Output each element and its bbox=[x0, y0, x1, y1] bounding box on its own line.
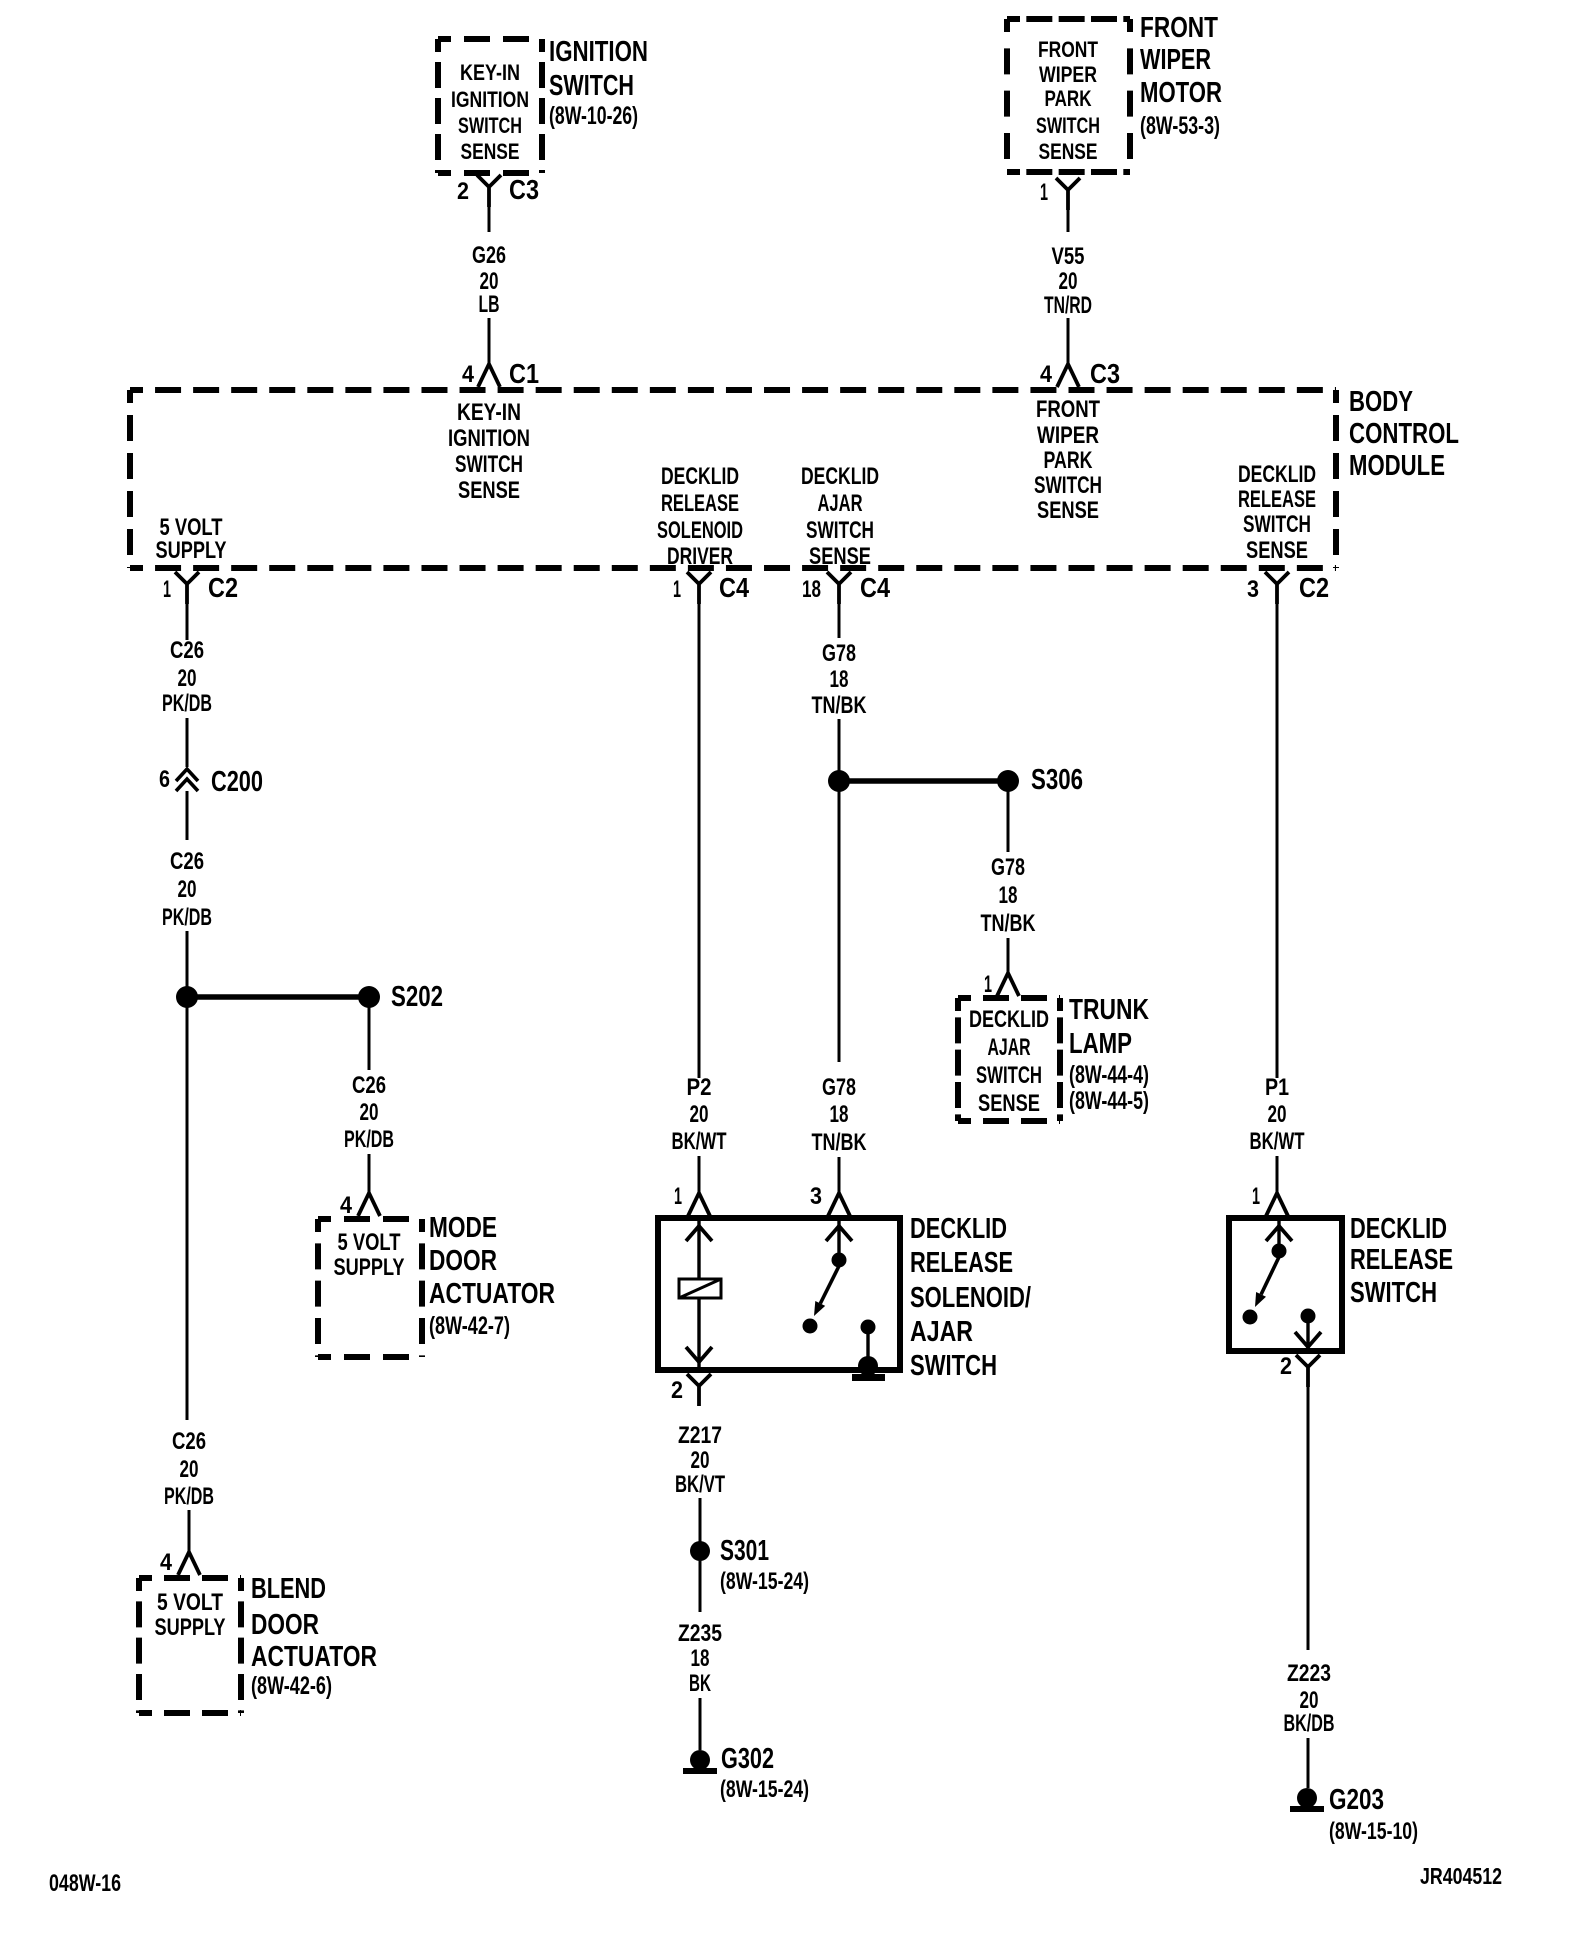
wire label C26 20 PK/DB (upper) bbox=[162, 637, 212, 717]
svg-text:RELEASE: RELEASE bbox=[1350, 1244, 1453, 1276]
svg-text:18: 18 bbox=[999, 882, 1018, 909]
svg-text:FRONT: FRONT bbox=[1036, 396, 1100, 423]
wire V55 20 TN/RD bbox=[1044, 243, 1092, 363]
svg-text:SUPPLY: SUPPLY bbox=[156, 537, 227, 564]
connector C2 pin 1 (BCM bottom left) bbox=[163, 572, 238, 604]
svg-text:FRONT: FRONT bbox=[1038, 37, 1098, 62]
svg-text:(8W-44-4): (8W-44-4) bbox=[1069, 1061, 1149, 1089]
svg-text:FRONT: FRONT bbox=[1140, 12, 1218, 44]
svg-text:1: 1 bbox=[674, 1183, 682, 1210]
connector pin 1 (decklid release solenoid) bbox=[674, 1183, 710, 1216]
wire label G78 18 TN/BK (lower) bbox=[812, 1062, 867, 1157]
svg-text:20: 20 bbox=[1059, 268, 1078, 295]
svg-text:BK/WT: BK/WT bbox=[672, 1128, 727, 1155]
svg-text:WIPER: WIPER bbox=[1037, 422, 1099, 449]
wire bbox=[1007, 938, 1010, 974]
ground G302 (8W-15-24) bbox=[683, 1743, 809, 1803]
svg-text:TN/BK: TN/BK bbox=[812, 1129, 867, 1156]
svg-text:(8W-42-6): (8W-42-6) bbox=[251, 1672, 332, 1700]
splice S306 bbox=[828, 764, 1083, 796]
connector pin 4 (blend door actuator) bbox=[160, 1549, 200, 1576]
svg-text:WIPER: WIPER bbox=[1140, 44, 1211, 76]
svg-text:V55: V55 bbox=[1052, 243, 1085, 270]
svg-text:SENSE: SENSE bbox=[461, 139, 520, 164]
svg-text:IGNITION: IGNITION bbox=[451, 87, 529, 112]
svg-text:C26: C26 bbox=[172, 1428, 206, 1455]
wire label P2 20 BK/WT bbox=[672, 1074, 727, 1155]
label DECKLID RELEASE SOLENOID/ AJAR SWITCH bbox=[910, 1213, 1031, 1382]
switch inside box bbox=[1243, 1218, 1322, 1351]
decklid release solenoid / ajar switch box bbox=[658, 1218, 900, 1370]
svg-text:PK/DB: PK/DB bbox=[344, 1126, 394, 1153]
svg-text:SENSE: SENSE bbox=[1039, 139, 1098, 164]
svg-text:4: 4 bbox=[160, 1549, 173, 1576]
svg-text:DECKLID: DECKLID bbox=[910, 1213, 1007, 1245]
node DECKLID RELEASE SWITCH SENSE (BCM) bbox=[1238, 461, 1316, 564]
svg-text:SWITCH: SWITCH bbox=[1034, 472, 1102, 499]
node 5 VOLT SUPPLY (BCM) bbox=[156, 514, 227, 564]
svg-text:SWITCH: SWITCH bbox=[455, 451, 523, 478]
svg-text:18: 18 bbox=[802, 576, 821, 603]
svg-text:BK/DB: BK/DB bbox=[1284, 1710, 1335, 1737]
svg-text:G78: G78 bbox=[822, 640, 856, 667]
blend door actuator box (5 VOLT SUPPLY) bbox=[139, 1575, 241, 1581]
svg-text:BODY: BODY bbox=[1349, 386, 1413, 418]
svg-text:C3: C3 bbox=[509, 174, 539, 205]
connector C3 pin 4 (BCM top) bbox=[1040, 358, 1120, 389]
ground G203 (8W-15-10) bbox=[1290, 1784, 1418, 1845]
wire from BCM C2 pin3 down bbox=[1276, 604, 1279, 1078]
svg-text:18: 18 bbox=[830, 666, 849, 693]
wire down to ground bbox=[1307, 1385, 1310, 1650]
svg-text:C4: C4 bbox=[860, 572, 890, 603]
svg-text:SWITCH: SWITCH bbox=[806, 517, 874, 544]
svg-text:DECKLID: DECKLID bbox=[969, 1006, 1049, 1033]
svg-text:Z217: Z217 bbox=[678, 1422, 722, 1449]
wire bbox=[698, 1156, 701, 1196]
svg-text:4: 4 bbox=[1040, 361, 1053, 388]
svg-text:MODE: MODE bbox=[429, 1212, 497, 1244]
svg-text:Z223: Z223 bbox=[1287, 1660, 1331, 1687]
svg-text:G26: G26 bbox=[472, 242, 506, 269]
wire bbox=[188, 1510, 191, 1553]
svg-text:TN/BK: TN/BK bbox=[812, 692, 867, 719]
trunk lamp box (DECKLID AJAR SWITCH SENSE) bbox=[958, 995, 1060, 1001]
node DECKLID AJAR SWITCH SENSE (BCM) bbox=[801, 463, 879, 570]
svg-text:C26: C26 bbox=[170, 848, 204, 875]
svg-text:G78: G78 bbox=[822, 1074, 856, 1101]
svg-text:6: 6 bbox=[159, 766, 170, 793]
svg-text:BK/VT: BK/VT bbox=[675, 1471, 725, 1498]
svg-text:(8W-53-3): (8W-53-3) bbox=[1140, 112, 1220, 140]
label IGNITION SWITCH (8W-10-26) bbox=[549, 36, 648, 130]
wire bbox=[699, 1561, 702, 1612]
label DECKLID RELEASE SWITCH bbox=[1350, 1213, 1453, 1309]
svg-text:048W-16: 048W-16 bbox=[49, 1870, 121, 1897]
svg-text:C26: C26 bbox=[170, 637, 204, 664]
svg-text:DECKLID: DECKLID bbox=[1350, 1213, 1447, 1245]
svg-text:SENSE: SENSE bbox=[1246, 537, 1308, 564]
wire bbox=[186, 718, 189, 767]
svg-text:(8W-15-10): (8W-15-10) bbox=[1329, 1818, 1418, 1845]
connector pin 1 (front wiper motor) bbox=[1040, 178, 1080, 232]
ignition switch box (KEY-IN IGNITION SWITCH SENSE) bbox=[438, 36, 542, 42]
wire down through splice S306 to ajar switch bbox=[838, 719, 841, 1196]
wire label Z223 20 BK/DB bbox=[1284, 1660, 1335, 1737]
svg-text:1: 1 bbox=[984, 971, 992, 998]
svg-text:C2: C2 bbox=[1299, 572, 1329, 603]
splice S202 bbox=[176, 981, 443, 1013]
wire label C26 20 PK/DB (middle) bbox=[162, 848, 212, 931]
svg-text:5 VOLT: 5 VOLT bbox=[338, 1229, 401, 1256]
label BLEND DOOR ACTUATOR (8W-42-6) bbox=[251, 1573, 377, 1700]
wire label C26 20 PK/DB (branch) bbox=[344, 1072, 394, 1153]
svg-text:5 VOLT: 5 VOLT bbox=[157, 1589, 223, 1616]
svg-text:C2: C2 bbox=[208, 572, 238, 603]
svg-text:MOTOR: MOTOR bbox=[1140, 77, 1222, 109]
svg-text:DRIVER: DRIVER bbox=[667, 543, 733, 570]
svg-text:20: 20 bbox=[178, 665, 197, 692]
svg-text:18: 18 bbox=[830, 1101, 849, 1128]
svg-text:LB: LB bbox=[479, 291, 500, 318]
label TRUNK LAMP (8W-44-4) (8W-44-5) bbox=[1069, 994, 1149, 1115]
svg-text:AJAR: AJAR bbox=[818, 490, 863, 517]
svg-text:S202: S202 bbox=[391, 981, 443, 1013]
svg-text:SWITCH: SWITCH bbox=[1350, 1277, 1437, 1309]
svg-text:1: 1 bbox=[673, 576, 681, 603]
svg-text:1: 1 bbox=[1040, 179, 1048, 206]
svg-text:20: 20 bbox=[178, 876, 197, 903]
svg-text:SOLENOID/: SOLENOID/ bbox=[910, 1282, 1031, 1314]
svg-text:AJAR: AJAR bbox=[988, 1034, 1031, 1061]
svg-text:20: 20 bbox=[690, 1101, 709, 1128]
svg-text:4: 4 bbox=[340, 1192, 353, 1219]
svg-text:SWITCH: SWITCH bbox=[1243, 511, 1311, 538]
svg-text:JR404512: JR404512 bbox=[1420, 1863, 1502, 1889]
connector pin 1 (decklid release switch) bbox=[1252, 1183, 1288, 1216]
wire label G78 18 TN/BK (upper) bbox=[812, 640, 867, 719]
connector pin 2 (decklid release solenoid) bbox=[671, 1374, 711, 1406]
svg-text:IGNITION: IGNITION bbox=[448, 425, 530, 452]
svg-text:Z235: Z235 bbox=[678, 1620, 722, 1647]
svg-text:P1: P1 bbox=[1265, 1074, 1289, 1101]
svg-text:20: 20 bbox=[180, 1456, 199, 1483]
svg-text:PK/DB: PK/DB bbox=[164, 1483, 214, 1510]
svg-text:CONTROL: CONTROL bbox=[1349, 418, 1459, 450]
wire G26 20 LB bbox=[472, 242, 506, 363]
wire label P1 20 BK/WT bbox=[1250, 1074, 1305, 1155]
svg-text:(8W-15-24): (8W-15-24) bbox=[720, 1776, 809, 1803]
wire label G78 18 TN/BK (branch) bbox=[981, 854, 1036, 937]
svg-text:(8W-15-24): (8W-15-24) bbox=[720, 1568, 809, 1595]
wire down through splice to blend door actuator bbox=[186, 931, 189, 1420]
svg-text:2: 2 bbox=[671, 1377, 683, 1404]
svg-text:DECKLID: DECKLID bbox=[801, 463, 879, 490]
svg-text:TN/RD: TN/RD bbox=[1044, 292, 1092, 319]
svg-text:SENSE: SENSE bbox=[458, 477, 520, 504]
svg-text:G203: G203 bbox=[1329, 1784, 1384, 1816]
svg-text:ACTUATOR: ACTUATOR bbox=[429, 1278, 555, 1310]
connector C2 pin 3 (BCM bottom right) bbox=[1247, 572, 1329, 604]
connector C4 pin 1 (BCM bottom) bbox=[673, 572, 749, 604]
wire bbox=[1307, 1738, 1310, 1788]
svg-text:SOLENOID: SOLENOID bbox=[657, 517, 743, 544]
svg-text:IGNITION: IGNITION bbox=[549, 36, 648, 68]
svg-text:BLEND: BLEND bbox=[251, 1573, 326, 1605]
svg-text:3: 3 bbox=[810, 1183, 822, 1210]
solenoid branch inside box bbox=[686, 1218, 712, 1367]
wire S202 right branch down bbox=[368, 997, 371, 1070]
svg-text:PK/DB: PK/DB bbox=[162, 904, 212, 931]
svg-text:DOOR: DOOR bbox=[251, 1609, 319, 1641]
svg-text:KEY-IN: KEY-IN bbox=[460, 60, 520, 85]
svg-text:RELEASE: RELEASE bbox=[1238, 486, 1316, 513]
svg-text:S306: S306 bbox=[1031, 764, 1083, 796]
label MODE DOOR ACTUATOR (8W-42-7) bbox=[429, 1212, 555, 1340]
wire label Z235 18 BK bbox=[678, 1620, 722, 1697]
svg-text:1: 1 bbox=[163, 576, 171, 603]
svg-text:4: 4 bbox=[462, 361, 475, 388]
connector pin 2 (decklid release switch) bbox=[1280, 1353, 1320, 1387]
svg-text:BK: BK bbox=[689, 1670, 711, 1697]
ajar switch inside box bbox=[803, 1218, 876, 1360]
svg-text:PK/DB: PK/DB bbox=[162, 690, 212, 717]
svg-text:SWITCH: SWITCH bbox=[1036, 113, 1100, 138]
wire from BCM C4 pin18 down bbox=[838, 604, 841, 638]
wire from BCM C2 pin1 bbox=[186, 604, 189, 640]
connector pin 1 (trunk lamp) bbox=[984, 971, 1019, 998]
svg-text:DOOR: DOOR bbox=[429, 1245, 497, 1277]
node DECKLID RELEASE SOLENOID DRIVER (BCM) bbox=[657, 463, 743, 570]
wire bbox=[186, 791, 189, 840]
splice S301 (8W-15-24) bbox=[690, 1535, 809, 1595]
label FRONT WIPER MOTOR (8W-53-3) bbox=[1140, 12, 1222, 140]
connector pin 4 (mode door actuator) bbox=[340, 1192, 380, 1219]
svg-text:C1: C1 bbox=[509, 358, 539, 389]
connector C3 pin 2 (ignition switch) bbox=[457, 174, 539, 232]
svg-text:C4: C4 bbox=[719, 572, 749, 603]
front wiper motor box (FRONT WIPER PARK SWITCH SENSE) bbox=[1007, 16, 1130, 22]
decklid release switch box bbox=[1229, 1218, 1342, 1351]
svg-text:S301: S301 bbox=[720, 1535, 769, 1567]
wire bbox=[368, 1154, 371, 1196]
node KEY-IN IGNITION SWITCH SENSE (BCM) bbox=[448, 399, 530, 504]
body control module box bbox=[130, 387, 1336, 393]
svg-text:2: 2 bbox=[1280, 1353, 1292, 1380]
svg-text:PARK: PARK bbox=[1044, 447, 1093, 474]
svg-text:TN/BK: TN/BK bbox=[981, 910, 1036, 937]
svg-text:SWITCH: SWITCH bbox=[910, 1350, 997, 1382]
svg-text:DECKLID: DECKLID bbox=[1238, 461, 1316, 488]
svg-text:SENSE: SENSE bbox=[978, 1090, 1040, 1117]
svg-text:LAMP: LAMP bbox=[1069, 1028, 1132, 1060]
svg-text:SUPPLY: SUPPLY bbox=[334, 1254, 405, 1281]
wire bbox=[1276, 1156, 1279, 1196]
svg-text:MODULE: MODULE bbox=[1349, 450, 1445, 482]
svg-text:TRUNK: TRUNK bbox=[1069, 994, 1149, 1026]
svg-text:2: 2 bbox=[457, 178, 469, 205]
svg-text:SENSE: SENSE bbox=[809, 543, 871, 570]
svg-text:3: 3 bbox=[1247, 576, 1259, 603]
svg-text:BK/WT: BK/WT bbox=[1250, 1128, 1305, 1155]
svg-text:20: 20 bbox=[691, 1447, 710, 1474]
svg-text:RELEASE: RELEASE bbox=[910, 1247, 1013, 1279]
svg-text:SWITCH: SWITCH bbox=[976, 1062, 1042, 1089]
wire bbox=[699, 1698, 702, 1750]
svg-text:KEY-IN: KEY-IN bbox=[457, 399, 521, 426]
connector pin 3 (decklid ajar switch) bbox=[810, 1183, 850, 1216]
mode door actuator box (5 VOLT SUPPLY) bbox=[318, 1216, 422, 1222]
node FRONT WIPER PARK SWITCH SENSE (BCM) bbox=[1034, 396, 1102, 524]
svg-text:18: 18 bbox=[691, 1645, 710, 1672]
svg-text:ACTUATOR: ACTUATOR bbox=[251, 1641, 377, 1673]
svg-text:G302: G302 bbox=[721, 1743, 774, 1775]
svg-text:WIPER: WIPER bbox=[1039, 62, 1097, 87]
wire label Z217 20 BK/VT bbox=[675, 1422, 725, 1498]
svg-text:SENSE: SENSE bbox=[1037, 497, 1099, 524]
svg-text:C200: C200 bbox=[211, 766, 263, 798]
svg-text:C26: C26 bbox=[352, 1072, 386, 1099]
wire from BCM C4 pin1 down bbox=[698, 604, 701, 1078]
connector C1 pin 4 (BCM top) bbox=[462, 358, 539, 389]
solenoid coil symbol bbox=[679, 1279, 721, 1298]
wire bbox=[699, 1498, 702, 1542]
svg-text:AJAR: AJAR bbox=[910, 1316, 973, 1348]
svg-text:SWITCH: SWITCH bbox=[458, 113, 522, 138]
svg-text:(8W-10-26): (8W-10-26) bbox=[549, 102, 638, 130]
svg-text:DECKLID: DECKLID bbox=[661, 463, 739, 490]
svg-text:PARK: PARK bbox=[1045, 86, 1092, 111]
label BODY CONTROL MODULE bbox=[1349, 386, 1459, 482]
svg-text:SWITCH: SWITCH bbox=[549, 70, 634, 102]
svg-text:RELEASE: RELEASE bbox=[661, 490, 739, 517]
ground symbol (case ground, ajar switch) bbox=[852, 1356, 885, 1381]
svg-text:20: 20 bbox=[360, 1099, 379, 1126]
connector C4 pin 18 (BCM bottom) bbox=[802, 572, 890, 604]
wire label C26 20 PK/DB (lower left) bbox=[164, 1428, 214, 1510]
svg-text:G78: G78 bbox=[991, 854, 1025, 881]
svg-text:1: 1 bbox=[1252, 1183, 1260, 1210]
svg-text:SUPPLY: SUPPLY bbox=[155, 1614, 226, 1641]
connector C200 pin 6 (in-line) bbox=[159, 766, 263, 798]
svg-text:(8W-42-7): (8W-42-7) bbox=[429, 1312, 510, 1340]
wire S306 right branch bbox=[1007, 781, 1010, 852]
svg-text:C3: C3 bbox=[1090, 358, 1120, 389]
svg-text:P2: P2 bbox=[687, 1074, 712, 1101]
svg-text:20: 20 bbox=[1268, 1101, 1287, 1128]
svg-text:(8W-44-5): (8W-44-5) bbox=[1069, 1087, 1149, 1115]
